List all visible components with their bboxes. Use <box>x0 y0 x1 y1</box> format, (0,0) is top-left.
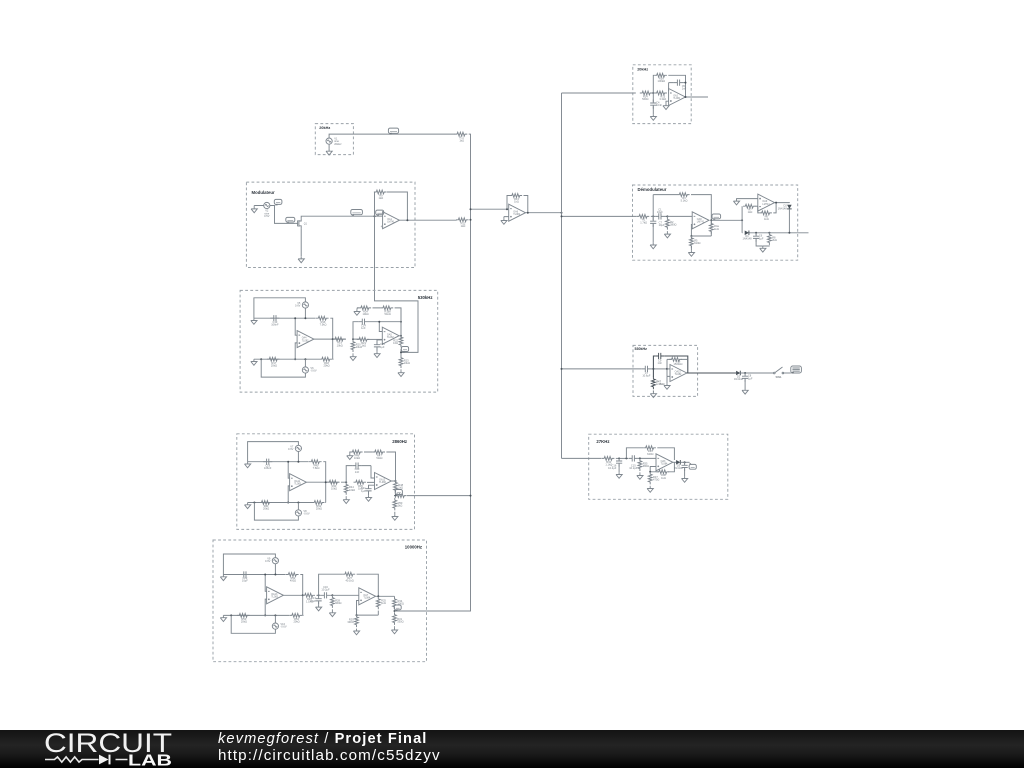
junction loop rail B 10k <box>230 614 232 616</box>
resistor R21 <box>357 338 370 348</box>
resistor R12 1k to summing bus <box>456 218 469 228</box>
svg-text:LM741: LM741 <box>762 203 770 206</box>
svg-text:Démodulateur: Démodulateur <box>638 187 667 192</box>
capacitor C14 <box>359 319 368 330</box>
junction carrier line at gate wire <box>374 215 376 217</box>
wire node2 to OA8 minus <box>667 215 692 217</box>
source V8 <box>295 509 310 516</box>
resistor R44 shunt <box>344 482 355 495</box>
junction bandpass node 1 <box>652 368 654 370</box>
source V9 <box>265 557 278 564</box>
junction envelope R <box>768 232 770 234</box>
wire series cap link <box>651 215 668 217</box>
wire rail B <box>254 339 334 359</box>
svg-text:27KHz: 27KHz <box>596 439 609 444</box>
svg-text:1nF: 1nF <box>361 326 366 330</box>
ground below C18 <box>682 476 688 482</box>
wire R44 ground <box>345 496 347 497</box>
junction loop rail B 2860 <box>253 502 255 504</box>
svg-text:1kΩ: 1kΩ <box>748 210 753 214</box>
svg-text:TL082: TL082 <box>271 596 278 599</box>
svg-text:TL082: TL082 <box>302 339 309 342</box>
wire OA4 output rail <box>314 338 360 340</box>
resistor R9 1k feedback <box>374 190 387 200</box>
wire ground to V2 <box>254 206 264 207</box>
svg-text:0.6V: 0.6V <box>295 304 301 308</box>
node flag 530kHz carrier out <box>401 347 408 353</box>
resistor R1 input <box>637 215 650 225</box>
wire stage2 vertical <box>741 206 743 233</box>
wire OA1 feedback loop <box>375 192 408 220</box>
ground below R37 <box>647 486 653 492</box>
capacitor C21 shunt <box>361 485 372 494</box>
ground below C16b <box>616 472 622 478</box>
junction rail C right <box>400 321 402 323</box>
svg-text:LAB: LAB <box>128 753 172 768</box>
svg-text:Q1: Q1 <box>304 222 308 225</box>
wire ground to OA6 plus input <box>504 217 509 219</box>
wire R2 ground <box>666 216 668 231</box>
resistor R17 <box>267 357 280 367</box>
resistor R31 shunt out <box>393 612 404 625</box>
wire R6 loop <box>758 203 776 213</box>
wire bus B to bandpass <box>562 368 642 370</box>
wire rail to OA7 <box>332 594 358 596</box>
wire OA12 plus chain <box>369 485 375 488</box>
svg-text:580Ω: 580Ω <box>670 223 676 227</box>
wire C4 to ground <box>652 106 654 114</box>
svg-text:1nF: 1nF <box>657 361 662 365</box>
diode D3 output <box>674 460 684 470</box>
junction filter input node <box>652 92 654 94</box>
svg-text:7.5kΩ: 7.5kΩ <box>320 322 327 326</box>
source V7 <box>288 444 301 451</box>
svg-text:1µF: 1µF <box>748 376 753 380</box>
svg-text:TL082: TL082 <box>379 481 386 484</box>
svg-text:SW1: SW1 <box>775 375 782 379</box>
svg-text:1500kΩ: 1500kΩ <box>673 362 682 366</box>
node flag 2860 output <box>395 490 402 496</box>
resistor R34 out leg <box>393 597 404 610</box>
junction 27k feedback node <box>625 457 627 459</box>
wire diode down to rail <box>788 209 790 233</box>
wire rail C 2860 <box>346 466 374 483</box>
resistor R29 <box>347 615 358 628</box>
wire C8 ground <box>744 380 746 389</box>
resistor R38 <box>657 470 670 480</box>
svg-text:TL084: TL084 <box>363 597 370 600</box>
junction V10 rail B <box>274 614 276 616</box>
node flag Porteuse <box>351 210 363 216</box>
junction shunt node <box>352 338 354 340</box>
junction minus stub on rail C <box>378 321 380 323</box>
ground below R20 <box>350 354 356 360</box>
svg-text:1kΩ: 1kΩ <box>714 227 719 231</box>
wire OA8 out to stage2 <box>711 219 742 221</box>
wire rail D ground 2860 <box>350 452 351 453</box>
resistor R30 input <box>602 457 615 467</box>
resistor R49 series out <box>394 494 407 498</box>
wire to 2860 out node <box>395 494 397 496</box>
wire 10k output to bus A <box>395 610 471 612</box>
resistor R27 feedback <box>343 572 356 582</box>
capacitor C8 envelope <box>742 373 753 382</box>
junction plus stub on rail B <box>294 358 296 360</box>
ground at source V2 <box>251 207 257 213</box>
capacitor C17 shunt <box>310 595 322 604</box>
junction feedback at output <box>685 82 687 84</box>
svg-text:-0.6V: -0.6V <box>303 512 309 516</box>
wire R12 to bus A <box>469 219 471 221</box>
wire R25 tail <box>377 611 379 616</box>
svg-text:1N4148: 1N4148 <box>734 377 744 381</box>
junction OA2 output <box>685 96 687 98</box>
ground below V1 <box>326 149 332 155</box>
ground below R2 <box>664 232 670 238</box>
junction stage2 node <box>741 219 743 221</box>
junction R12 on bus A <box>470 219 472 221</box>
svg-text:10µF: 10µF <box>242 579 248 583</box>
resistor R53 <box>237 614 250 624</box>
capacitor C15 shunt <box>374 341 385 350</box>
wire rail B 10k <box>223 595 303 615</box>
wire Q1 source to ground <box>300 228 302 256</box>
junction plus divider <box>690 235 692 237</box>
CircuitLab logo <box>44 731 184 768</box>
wire rail D <box>357 308 401 336</box>
svg-text:10kΩ: 10kΩ <box>331 486 337 490</box>
node flag at OA1 inverting input <box>376 210 384 215</box>
wire minus stub 10k <box>265 575 266 592</box>
diode D1 envelope <box>742 231 752 241</box>
wire output rail to OA5 <box>367 338 382 340</box>
svg-text:10Ω: 10Ω <box>393 341 398 345</box>
wire to tag node <box>400 349 402 356</box>
ground at rail D <box>354 309 360 315</box>
junction minus on input rail <box>666 368 668 370</box>
wire C17 ground <box>318 602 320 605</box>
wire R20 to ground <box>352 353 354 354</box>
wire OA7 plus chain <box>357 601 359 616</box>
resistor R42 <box>312 501 325 511</box>
svg-text:10000Hz: 10000Hz <box>405 545 422 550</box>
junction feedback on output rail <box>332 338 334 340</box>
ground rail A left 10k <box>220 575 226 581</box>
ground rail B left 2860 <box>245 503 251 509</box>
wire top-left loop 2860 <box>248 442 299 462</box>
resistor R43 <box>327 480 340 490</box>
junction 27k node 1 <box>618 457 620 459</box>
svg-text:20kΩ: 20kΩ <box>271 363 277 367</box>
ground below R5 <box>688 250 694 256</box>
svg-text:0.6V: 0.6V <box>265 559 271 563</box>
resistor R45 <box>354 480 367 490</box>
svg-text:10nF: 10nF <box>656 103 662 107</box>
resistor R25 divider <box>376 597 386 610</box>
op-amp OA13 oscillator 10k <box>267 587 284 604</box>
svg-text:10µF: 10µF <box>657 210 663 214</box>
ground rail B left 10k <box>220 615 226 621</box>
capacitor C22 <box>240 571 249 582</box>
junction feedback left <box>506 208 508 210</box>
wire bus B to filter input <box>562 92 636 94</box>
wire plus stub 2860 <box>288 486 289 503</box>
svg-text:10µF: 10µF <box>659 223 665 227</box>
junction divider left 10k <box>356 614 358 616</box>
svg-text:20kHz: 20kHz <box>334 142 342 146</box>
junction OA12 output <box>395 480 397 482</box>
svg-text:1kΩ: 1kΩ <box>379 196 384 200</box>
junction V5 on rail A <box>304 317 306 319</box>
wire V6 to rail B <box>304 359 306 367</box>
wire node1 vertical <box>652 195 654 243</box>
op-amp OA1 LM741 modulator <box>383 212 400 229</box>
svg-text:470Ω: 470Ω <box>653 477 659 481</box>
svg-text:1µF: 1µF <box>361 489 366 493</box>
speaker / earphone flag icon <box>791 366 802 373</box>
resistor R11 1k <box>455 132 468 142</box>
node flag demod mid <box>712 214 721 220</box>
wire V5 to rail A <box>304 308 306 318</box>
ground below Q1 <box>298 257 304 263</box>
wire R37 ground <box>649 485 651 487</box>
svg-text:560Ω: 560Ω <box>642 97 648 101</box>
svg-text:10.6µF: 10.6µF <box>642 374 651 378</box>
svg-text:680Ω: 680Ω <box>643 464 649 468</box>
svg-text:10kΩ: 10kΩ <box>404 361 410 365</box>
junction 27k node 2 <box>639 457 641 459</box>
wire OA5 plus to cap <box>377 340 382 344</box>
wire V10 stub <box>274 615 276 623</box>
wire R11 to bus A <box>469 133 471 135</box>
svg-text:10kΩ: 10kΩ <box>354 456 360 460</box>
resistor R47b <box>372 450 385 460</box>
svg-text:20kΩ: 20kΩ <box>293 620 299 624</box>
resistor R50 shunt out <box>393 498 403 511</box>
svg-text:TL082: TL082 <box>294 482 301 485</box>
capacitor C5 feedback <box>674 80 687 91</box>
ground below R35 <box>637 473 643 479</box>
svg-text:40.1kΩ: 40.1kΩ <box>345 578 353 582</box>
junction shunt R node 10k <box>331 594 333 596</box>
ground below OA15 plus <box>664 383 670 389</box>
wire OA15 output <box>687 372 737 374</box>
switch SW1 <box>774 367 784 379</box>
dashed box Demodulateur <box>633 185 798 260</box>
dashed box 20kHz filter <box>633 65 691 124</box>
wire minus stub 2860 <box>288 462 289 479</box>
capacitor C20 <box>352 463 361 474</box>
wire bus A vertical <box>470 134 472 611</box>
wire R31 ground <box>394 596 396 627</box>
resistor R26 series <box>302 593 315 603</box>
op-amp OA11 oscillator 2860 <box>290 474 307 491</box>
wire V8 stub <box>297 503 299 510</box>
svg-text:1nF: 1nF <box>355 470 360 474</box>
wire carrier from oscillator <box>375 216 419 352</box>
wire C21 ground <box>368 492 370 495</box>
svg-text:400Ω: 400Ω <box>290 579 296 583</box>
svg-text:1kΩ: 1kΩ <box>661 476 666 480</box>
dashed box 27KHz filter <box>589 434 728 499</box>
resistor R41 <box>259 501 272 511</box>
resistor R16b feedback <box>654 73 667 83</box>
dashed box 530kHz bandpass <box>633 345 698 396</box>
wire bus B corner to 27k input <box>562 457 602 459</box>
junction OA9 output <box>775 202 777 204</box>
node flag 10000Hz output <box>394 605 401 611</box>
svg-text:2kΩ: 2kΩ <box>398 503 403 507</box>
junction OA5 output <box>400 335 402 337</box>
wire plus input stub <box>295 343 297 359</box>
ground rail D 2860 <box>347 453 353 459</box>
resistor R7 <box>743 204 756 214</box>
wire feedback rail bandpass <box>667 358 688 360</box>
junction V8 rail B <box>297 502 299 504</box>
wire C15 to ground <box>376 348 378 351</box>
node flag message input <box>286 217 295 222</box>
wire output rail 10k <box>283 594 318 596</box>
resistor R15 <box>654 91 667 101</box>
wire plus stub 10k <box>265 599 266 615</box>
resistor R22 output <box>393 335 403 348</box>
ground below C17 <box>316 605 322 611</box>
svg-text:330Ω: 330Ω <box>397 620 403 624</box>
ground below R31 <box>391 628 397 634</box>
wire divider rail 10k <box>357 614 379 616</box>
svg-text:LM741: LM741 <box>697 221 705 224</box>
svg-text:510Ω: 510Ω <box>694 241 700 245</box>
junction shunt node 2860 <box>345 481 347 483</box>
wire minus stub bandpass <box>667 368 670 370</box>
junction minus stub on rail A <box>294 317 296 319</box>
wire diode to switch <box>740 372 773 374</box>
wire bus B to demod input <box>562 215 637 217</box>
svg-text:20kHz: 20kHz <box>319 126 330 130</box>
wire R30 to node <box>616 457 629 459</box>
junction V6 on rail B <box>304 358 306 360</box>
resistor R19b <box>381 306 394 316</box>
wire cap to node 2 <box>638 457 656 459</box>
op-amp OA7 filter 10k <box>359 588 376 605</box>
svg-text:1N4148: 1N4148 <box>778 206 788 210</box>
svg-text:1nF: 1nF <box>682 87 687 91</box>
svg-text:1µF: 1µF <box>759 236 764 240</box>
capacitor C4 shunt <box>650 100 662 109</box>
wire OA15 plus ground <box>666 376 668 383</box>
op-amp OA5 filter <box>382 327 399 344</box>
op-amp OA6 summing amplifier <box>509 204 526 221</box>
wire R7 to OA9 <box>755 205 758 207</box>
ground at OA6 non-inverting input <box>501 218 507 224</box>
dashed box 10000Hz oscillator <box>213 540 427 662</box>
wire rail C <box>353 322 401 339</box>
wire 27k feedback loop <box>626 448 674 460</box>
ground at rail B left <box>251 359 257 365</box>
node flag 27k output <box>689 463 696 470</box>
wire R50 to ground <box>394 496 397 515</box>
svg-text:1kΩ: 1kΩ <box>361 344 366 348</box>
svg-text:530kHz: 530kHz <box>635 347 648 351</box>
junction 2860 out node <box>395 495 397 497</box>
junction OA8 output <box>710 219 712 221</box>
wire rail A 10k <box>223 575 302 596</box>
resistor R19 <box>333 337 346 347</box>
wire V1 to ground <box>328 144 330 149</box>
svg-text:560Ω: 560Ω <box>335 601 341 605</box>
wire V9 to rail <box>274 564 276 575</box>
op-amp OA2 filter 20k <box>669 89 686 106</box>
dashed box 2860Hz oscillator <box>237 434 415 530</box>
wire feedback R path <box>653 75 685 97</box>
svg-text:7.5kΩ: 7.5kΩ <box>313 466 320 470</box>
ground below R28 <box>329 611 335 617</box>
resistor R35 shunt <box>638 458 649 471</box>
junction 10k out node <box>394 610 396 612</box>
junction OA6 output at feedback <box>527 212 529 214</box>
wire OA8 plus chain <box>691 225 711 237</box>
resistor R23 <box>399 355 410 368</box>
wire R8 tail <box>763 233 770 247</box>
resistor R37 <box>648 472 659 485</box>
wire OA2 plus to ground <box>666 101 669 103</box>
source V6 <box>302 366 317 373</box>
wire R35 ground <box>639 458 641 473</box>
junction minus stub 10k <box>264 574 266 576</box>
dashed box 530kHz oscillator <box>240 290 438 392</box>
diode D2b output <box>734 371 744 382</box>
resistor R18 <box>320 357 333 367</box>
source V5 <box>295 301 308 308</box>
wire bus A to summing node <box>470 208 509 210</box>
ground below R44 <box>343 497 349 503</box>
svg-text:20kΩ: 20kΩ <box>316 507 322 511</box>
source V10 <box>272 622 287 629</box>
junction V9 rail A <box>274 574 276 576</box>
wire rail B 2860 <box>248 482 326 502</box>
capacitor C16b shunt <box>608 458 622 471</box>
svg-text:10kΩ: 10kΩ <box>337 343 343 347</box>
wire shunt cap chain <box>652 93 654 102</box>
capacitor C19 <box>263 459 272 470</box>
ground rail A left 2860 <box>245 462 251 468</box>
junction bus A / summing input <box>470 208 472 210</box>
junction demod node 2 <box>666 215 668 217</box>
capacitor C9 series top <box>655 353 664 365</box>
junction output on bus B <box>561 212 563 214</box>
svg-text:10.2µF: 10.2µF <box>629 466 638 470</box>
resistor R28 shunt <box>331 595 342 608</box>
wire rail D from ground <box>357 308 358 309</box>
svg-text:-0.6V: -0.6V <box>280 625 286 629</box>
svg-text:100kΩ: 100kΩ <box>658 79 666 83</box>
wire V2 to transistor gate <box>270 206 296 224</box>
ground below C21 <box>365 495 371 501</box>
svg-text:0.5V: 0.5V <box>264 214 270 218</box>
svg-text:1.35kΩ: 1.35kΩ <box>656 382 664 386</box>
wire R5 ground <box>690 236 692 250</box>
junction bottom loop on rail B <box>260 358 262 360</box>
svg-text:LM741: LM741 <box>387 220 395 223</box>
wire OA5 output chain <box>399 308 401 339</box>
resistor R48 output <box>394 480 404 493</box>
junction envelope cap 2 <box>744 372 746 374</box>
capacitor C6 envelope <box>753 233 764 242</box>
wire rail A <box>254 318 333 339</box>
resistor R36 feedback <box>643 446 656 456</box>
wire V1 top to node Vin <box>329 134 455 138</box>
resistor R40 <box>309 460 322 470</box>
